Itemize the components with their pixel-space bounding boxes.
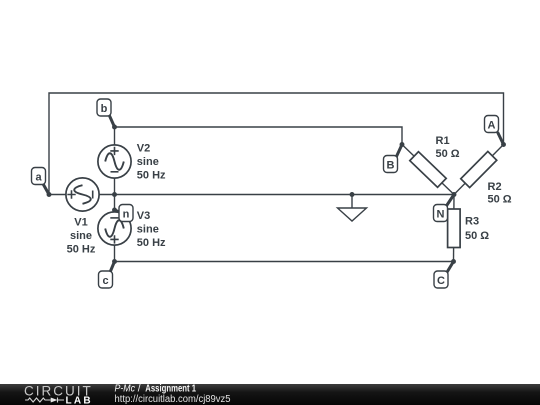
wire top bus a-A [49, 93, 504, 195]
svg-text:V2: V2 [137, 143, 150, 155]
node flag N [434, 195, 455, 222]
junction at node a [47, 192, 52, 197]
label R3 value [465, 216, 489, 243]
svg-text:b: b [101, 103, 108, 115]
svg-text:a: a [35, 172, 42, 184]
wire R3 leads [453, 195, 456, 262]
junction at node n [112, 208, 117, 213]
wire bottom bus c-C [115, 261, 454, 263]
junction at node B [400, 142, 405, 147]
label R1 value [436, 135, 460, 160]
footer CircuitLab logo [24, 384, 93, 405]
svg-text:N: N [437, 209, 445, 221]
junction at node A [501, 142, 506, 147]
svg-text:50 Hz: 50 Hz [137, 170, 166, 182]
node flag n [115, 205, 134, 222]
svg-text:P-Mc: P-Mc [115, 383, 136, 394]
voltage source V1 [66, 178, 99, 211]
label V2 value [137, 143, 166, 182]
node flag C [434, 262, 454, 289]
svg-text:50 Ω: 50 Ω [436, 148, 460, 160]
wire R2 leads [454, 145, 504, 195]
voltage source V2 [98, 145, 131, 178]
wire R1 leads [402, 145, 454, 195]
ground [338, 195, 367, 222]
svg-text:c: c [102, 275, 108, 287]
svg-text:n: n [123, 209, 130, 221]
svg-text:A: A [488, 120, 496, 132]
node flag a [32, 168, 50, 195]
svg-text:Assignment 1: Assignment 1 [145, 383, 196, 394]
label V1 value [67, 217, 96, 256]
label R2 value [488, 181, 512, 206]
svg-text:sine: sine [70, 230, 92, 242]
node flag A [485, 116, 504, 145]
node flag b [97, 99, 115, 127]
svg-text:sine: sine [137, 224, 159, 236]
svg-text:C: C [437, 275, 445, 287]
wire V2 top stem [114, 127, 116, 145]
svg-text:http://circuitlab.com/cj89vz5: http://circuitlab.com/cj89vz5 [115, 394, 231, 405]
junction at node C [451, 259, 456, 264]
svg-text:R2: R2 [488, 181, 502, 193]
voltage source V3 [98, 212, 131, 245]
wire b bus [115, 127, 403, 145]
wire a to V1 [49, 194, 66, 196]
junction at node c [112, 259, 117, 264]
footer title text [115, 383, 231, 405]
svg-text:/: / [138, 383, 141, 394]
wire V2 bottom stem [114, 178, 116, 195]
junction ground tap [350, 192, 355, 197]
node flag c [99, 262, 115, 289]
svg-text:50 Ω: 50 Ω [488, 194, 512, 206]
svg-text:V3: V3 [137, 210, 150, 222]
junction at node b [112, 125, 117, 130]
svg-text:R1: R1 [436, 135, 450, 147]
wire mid bus V1 to N [99, 194, 454, 196]
svg-text:sine: sine [137, 156, 159, 168]
svg-text:LAB: LAB [66, 395, 93, 405]
svg-text:50 Ω: 50 Ω [465, 230, 489, 242]
wire V3 top stem [114, 195, 116, 213]
footer bar [0, 384, 540, 405]
svg-text:R3: R3 [465, 216, 479, 228]
resistor R2 [461, 151, 497, 187]
resistor R1 [410, 152, 446, 188]
junction at node N [452, 192, 457, 197]
wire V3 bottom stem [114, 245, 116, 262]
svg-text:50 Hz: 50 Hz [67, 244, 96, 256]
svg-text:V1: V1 [74, 217, 87, 229]
label V3 value [137, 210, 166, 249]
svg-text:B: B [387, 160, 395, 172]
node flag B [384, 145, 403, 173]
junction V1/V2/V3 mid [112, 192, 117, 197]
svg-text:50 Hz: 50 Hz [137, 237, 166, 249]
resistor R3 [448, 209, 461, 248]
